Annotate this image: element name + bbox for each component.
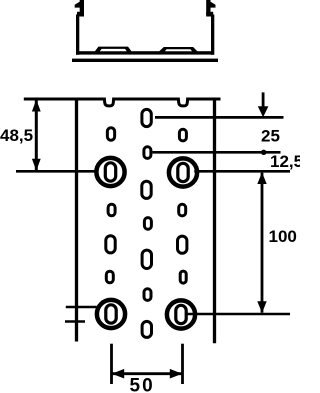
svg-text:48,5: 48,5 bbox=[0, 126, 33, 145]
ring hole row1 right bbox=[169, 158, 197, 186]
cross-section right hook lip bbox=[210, 2, 215, 8]
cross-section right wall bbox=[211, 15, 214, 55]
ring hole row1 left bbox=[96, 158, 124, 186]
row2 left tick lower bbox=[65, 320, 85, 322]
cross-section left rib bbox=[93, 47, 134, 55]
slot R2 bbox=[179, 204, 186, 216]
slot C2 bbox=[144, 147, 151, 159]
cross-section left hook lip bbox=[75, 2, 80, 8]
slot C5 bbox=[142, 250, 151, 268]
slot C1 bbox=[142, 109, 151, 126]
slot L1 bbox=[107, 128, 114, 141]
plan top edge with notches bbox=[24, 99, 221, 106]
slot C4 bbox=[144, 218, 151, 230]
slot C7 bbox=[142, 321, 151, 337]
slot C6 bbox=[144, 289, 151, 301]
dim 25 arrow head bbox=[258, 106, 269, 117]
plan left wall bbox=[75, 98, 78, 342]
dim 50 line bbox=[112, 372, 183, 375]
cross-section right rib bbox=[156, 47, 201, 55]
dim 12,5 dot bbox=[261, 150, 266, 155]
dim 12,5 line bbox=[152, 151, 280, 154]
row2 left tick upper bbox=[66, 306, 97, 308]
cross-section outer bottom line bbox=[72, 59, 218, 62]
cross-section right top hook bar bbox=[206, 0, 210, 15]
plan right wall bbox=[213, 98, 216, 343]
cross-section left hook step bbox=[77, 12, 84, 17]
cross-section right hook step bbox=[206, 12, 213, 17]
svg-text:12,5: 12,5 bbox=[270, 152, 300, 171]
slot C3 bbox=[142, 181, 151, 198]
dim 25 line bbox=[155, 116, 284, 119]
dim 50 arrow right bbox=[170, 369, 182, 379]
dim 25 arrow shaft bbox=[262, 92, 265, 107]
dim 100 arrow down bbox=[257, 301, 266, 313]
dim 48,5 arrow up bbox=[32, 100, 41, 112]
cross-section inner bottom line bbox=[76, 51, 214, 54]
slot L3 bbox=[106, 236, 115, 253]
slot L2 bbox=[108, 204, 115, 216]
svg-text:100: 100 bbox=[269, 227, 297, 246]
row2 centerline right segment bbox=[187, 313, 290, 316]
slot L4 bbox=[106, 271, 113, 283]
ring hole row2 right bbox=[167, 300, 195, 328]
dim 48,5 arrow down bbox=[32, 159, 41, 171]
svg-text:25: 25 bbox=[261, 127, 280, 146]
slot R4 bbox=[180, 271, 186, 283]
ring hole row2 left bbox=[97, 300, 125, 328]
svg-text:50: 50 bbox=[130, 376, 155, 393]
slot R3 bbox=[178, 236, 187, 253]
dim 50 extension right bbox=[181, 344, 184, 384]
dim 100 line bbox=[261, 173, 264, 313]
row1 centerline right segment bbox=[194, 170, 290, 173]
dim 100 arrow up bbox=[257, 172, 266, 184]
row1 centerline left segment bbox=[16, 170, 97, 173]
cross-section left wall bbox=[76, 15, 79, 55]
dim 50 extension left bbox=[110, 344, 113, 384]
dim 48,5 line bbox=[35, 100, 38, 170]
slot R1 bbox=[179, 129, 186, 141]
cross-section left top hook bar bbox=[80, 0, 84, 15]
dim 50 arrow left bbox=[112, 369, 124, 379]
